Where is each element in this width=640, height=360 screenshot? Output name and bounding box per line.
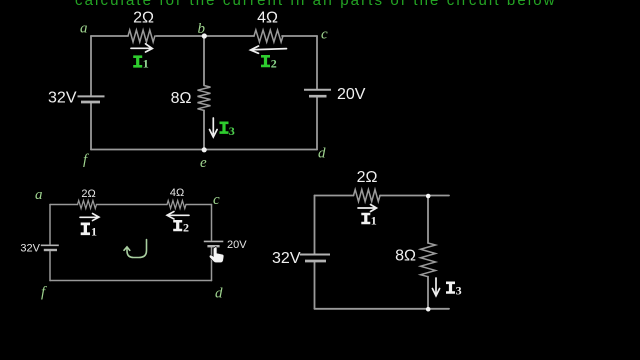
wire: 4ohm to top-right corner c xyxy=(282,35,317,37)
label I3 (main) xyxy=(220,122,229,134)
arrow I1 (main) xyxy=(131,44,152,52)
svg-text:e: e xyxy=(200,155,207,171)
battery V2 20V (main right) xyxy=(304,90,331,96)
label I1 (bottom-right) xyxy=(361,213,370,225)
svg-text:1: 1 xyxy=(371,213,377,227)
label I1 (bottom-left) xyxy=(81,223,90,236)
svg-text:1: 1 xyxy=(91,224,97,238)
wire: right vertical upper xyxy=(427,196,429,243)
wire: right vertical lower xyxy=(427,277,429,309)
svg-text:2: 2 xyxy=(183,220,189,234)
svg-text:b: b xyxy=(198,21,206,37)
svg-text:c: c xyxy=(213,192,220,208)
wire: right edge upper xyxy=(211,205,213,241)
svg-text:1: 1 xyxy=(143,57,149,71)
node dot top (bottom-right) xyxy=(426,194,431,199)
svg-text:20V: 20V xyxy=(227,239,247,251)
battery 32V (bottom-left) xyxy=(41,245,59,250)
svg-text:3: 3 xyxy=(229,124,235,138)
label I2 (bottom-left) xyxy=(173,220,182,231)
wire: right edge lower xyxy=(316,98,318,150)
svg-text:c: c xyxy=(321,27,328,43)
resistor 8ohm (bottom-right, vertical) xyxy=(421,243,436,277)
svg-text:32V: 32V xyxy=(272,250,301,267)
resistor R2 4ohm (main) xyxy=(254,30,283,42)
node b dot xyxy=(202,33,207,38)
wire: left edge lower xyxy=(314,263,316,309)
wire: middle vertical lower (8ohm to e) xyxy=(203,110,205,149)
resistor 2ohm (bottom-right) xyxy=(354,190,380,202)
wire: 2ohm to 4ohm xyxy=(97,204,168,206)
label I2 (main) xyxy=(261,55,270,67)
arrow I2 (bottom-left) xyxy=(167,212,189,220)
svg-text:calculate for the current in a: calculate for the current in all parts o… xyxy=(75,0,557,9)
svg-text:8Ω: 8Ω xyxy=(395,248,416,265)
battery V1 32V (main left) xyxy=(78,96,105,102)
svg-text:8Ω: 8Ω xyxy=(171,90,192,107)
svg-text:20V: 20V xyxy=(337,86,366,103)
arrow I3 (bottom-right) xyxy=(432,278,439,296)
resistor R1 2ohm (main) xyxy=(128,30,155,42)
wire: right edge upper xyxy=(316,36,318,89)
svg-text:4Ω: 4Ω xyxy=(170,187,184,199)
svg-text:a: a xyxy=(80,21,88,37)
resistor 4ohm (bottom-left) xyxy=(167,201,186,209)
svg-text:32V: 32V xyxy=(20,243,40,255)
label I1 (main) xyxy=(133,55,142,67)
wire: bottom with right stub xyxy=(315,308,450,310)
wire: 2ohm to node b xyxy=(156,35,254,37)
svg-text:2Ω: 2Ω xyxy=(357,169,378,186)
wire: bottom f to d xyxy=(50,280,212,282)
node dot bottom (bottom-right) xyxy=(426,307,431,312)
wire: top a to 2ohm xyxy=(50,204,78,206)
svg-text:d: d xyxy=(215,286,223,302)
svg-text:3: 3 xyxy=(456,283,462,297)
svg-text:2: 2 xyxy=(271,56,277,70)
svg-text:2Ω: 2Ω xyxy=(133,10,154,27)
wire: left edge lower xyxy=(49,252,51,281)
label I3 (bottom-right) xyxy=(446,282,455,294)
resistor 2ohm (bottom-left) xyxy=(78,201,97,209)
wire: bottom f to d xyxy=(91,149,317,151)
arrow I2 (main) xyxy=(251,46,287,53)
wire: 2ohm to right stub end xyxy=(380,195,449,197)
wire: top-left a to 2ohm xyxy=(91,35,128,37)
wire: 4ohm to corner c xyxy=(186,204,212,206)
arrow I3 (main) xyxy=(210,118,218,137)
wire: left edge lower xyxy=(90,104,92,150)
svg-text:d: d xyxy=(318,146,326,162)
battery 20V (bottom-left) xyxy=(204,241,224,246)
wire: left edge upper xyxy=(90,36,92,95)
green loop arrow (bottom-left) xyxy=(124,240,147,258)
wire: right edge lower xyxy=(211,248,213,281)
battery 32V (bottom-right) xyxy=(300,255,330,262)
svg-text:32V: 32V xyxy=(48,90,77,107)
svg-text:4Ω: 4Ω xyxy=(257,10,278,27)
mouse cursor xyxy=(209,247,224,263)
arrow I1 (bottom-left) xyxy=(80,214,99,221)
wire: left edge upper xyxy=(49,205,51,245)
wire: top-left corner to 2ohm xyxy=(315,195,354,197)
svg-text:a: a xyxy=(35,187,43,203)
arrow I1 (bottom-right) xyxy=(358,205,377,212)
svg-text:2Ω: 2Ω xyxy=(81,188,95,200)
node e dot xyxy=(202,147,207,152)
wire: left edge upper xyxy=(314,196,316,254)
resistor R3 8ohm (main, vertical) xyxy=(198,86,211,111)
wire: middle vertical upper (b to 8ohm) xyxy=(203,36,205,85)
